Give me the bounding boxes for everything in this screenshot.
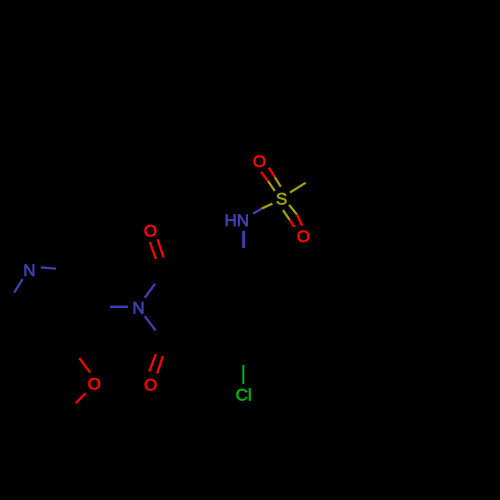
wire C1=O1 double bond line b (red) [158,239,164,257]
svg-text:S: S [276,189,287,208]
wire S1=O4 double bond line b red half [269,168,275,178]
svg-text:O: O [253,152,266,171]
wire S1=O5 double bond line a olive half [289,205,297,215]
wire S1=O5 double bond line b olive half [283,210,290,220]
wire C3=O2 double bond line a (red) [149,354,156,372]
wire bond N2-C3(pyridinyl) half (blue stub left of imide N) [110,306,128,308]
svg-text:HN: HN [225,211,250,230]
svg-text:O: O [88,375,101,394]
wire S1=O4 double bond line a olive half [268,181,275,191]
svg-text:O: O [297,227,310,246]
wire bond N2-C3(=O) half (blue stub lower-right of imide N) [145,316,156,330]
svg-text:O: O [144,221,157,240]
wire S1=O4 double bond line b olive half [275,177,281,187]
svg-text:Cl: Cl [236,386,252,405]
wire bond C7-Cl1 half (green stub above Cl) [242,365,244,384]
svg-text:N: N [132,299,144,318]
wire bond N1-C2 half (blue stub right of pyridine N) [41,267,56,268]
wire bond N3-S half near N (blue) [253,208,262,213]
wire bond N1-C6 half (blue stub lower-left of pyridine N) [14,279,23,293]
wire S1=O4 double bond line a red half [261,172,268,182]
wire C3=O2 double bond line b (red) [157,356,163,374]
wire bond N3-C4(aryl) half (blue stub below HN) [242,231,245,248]
svg-text:N: N [23,261,35,280]
wire bond O3-C4(pyridine) half (red stub upper-left of methoxy O) [79,358,90,372]
wire bond N2-C1(=O) half (blue stub upper-right of imide N) [145,284,155,298]
wire bond S1-CH3 half (olive stub upper-right of S) [290,183,306,193]
wire C1=O1 double bond line a (red) [150,242,156,259]
wire bond O3-CH3 half (red stub lower-left of methoxy O) [76,393,86,403]
wire S1=O5 double bond line a red half [297,214,302,225]
svg-text:O: O [144,375,157,394]
wire S1=O5 double bond line b red half [290,220,295,227]
wire bond N3-S half near S (olive) [262,204,272,209]
